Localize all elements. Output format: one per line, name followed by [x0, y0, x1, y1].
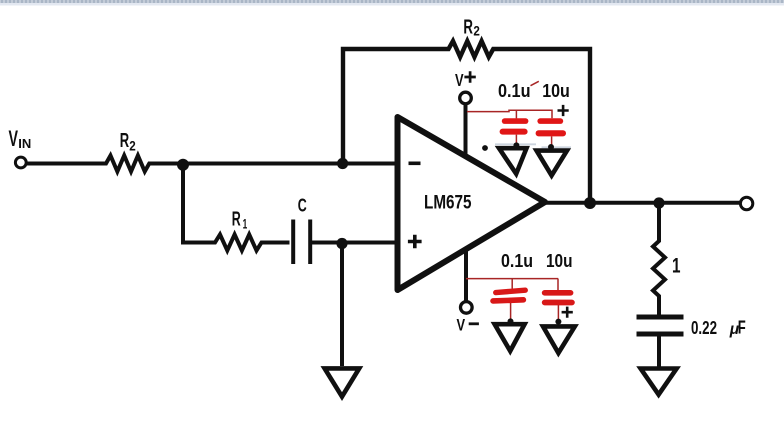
svg-text:1: 1 [243, 216, 248, 232]
svg-text:0.22: 0.22 [691, 317, 717, 338]
svg-text:0.1u: 0.1u [498, 81, 531, 101]
svg-text:C: C [298, 195, 307, 216]
svg-text:V: V [9, 126, 19, 151]
svg-text:V: V [457, 316, 466, 335]
svg-text:0.1u: 0.1u [501, 251, 533, 271]
svg-text:10u: 10u [546, 251, 573, 271]
svg-text:LM675: LM675 [424, 192, 472, 214]
svg-text:R: R [232, 209, 241, 231]
svg-text:R: R [463, 16, 473, 38]
svg-text:1: 1 [672, 255, 681, 278]
svg-text:R: R [120, 130, 130, 152]
svg-text:2: 2 [129, 138, 136, 154]
svg-text:IN: IN [18, 136, 31, 151]
svg-text:F: F [738, 316, 746, 337]
svg-text:V: V [455, 70, 464, 90]
svg-text:10u: 10u [542, 81, 570, 101]
svg-text:2: 2 [473, 22, 480, 38]
